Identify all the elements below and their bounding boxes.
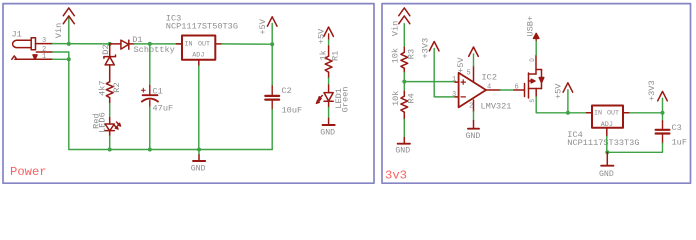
- svg-text:+3V3: +3V3: [647, 80, 657, 101]
- svg-text:ADJ: ADJ: [192, 52, 204, 60]
- supply +3V3 arrow (out): [658, 91, 668, 100]
- diode D2 zener: [104, 44, 116, 73]
- frame left panel: [3, 4, 374, 184]
- wire IC3 OUT to +5V node: [222, 43, 272, 45]
- svg-text:USB+: USB+: [525, 16, 535, 37]
- regulator IC3 box: [177, 36, 222, 67]
- ground GND op-amp: [468, 121, 479, 129]
- wire IC4 ADJ to rail: [606, 137, 608, 153]
- svg-text:J1: J1: [12, 30, 22, 40]
- svg-text:GND: GND: [191, 165, 206, 174]
- capacitor C1 polarized: [141, 86, 158, 108]
- LED1 emission arrows: [316, 96, 322, 104]
- node ADJ rail junction: [605, 150, 609, 154]
- svg-text:10uF: 10uF: [282, 106, 303, 116]
- wire +3V3 stem: [433, 49, 435, 82]
- wire J1 pin2 to down bend: [53, 52, 69, 59]
- capacitor C2: [265, 86, 279, 110]
- op-amp IC2: [455, 66, 500, 112]
- wire IC4 OUT to +3V3 node: [630, 112, 663, 114]
- node Vin junction: [67, 42, 71, 46]
- wire junction to IC4 IN: [568, 112, 587, 114]
- svg-text:+5V: +5V: [456, 57, 466, 73]
- LED LED1 green: [324, 85, 333, 108]
- wire Vin to R3: [403, 24, 405, 53]
- wire C1 to rail: [149, 107, 151, 150]
- svg-text:D2: D2: [101, 44, 111, 54]
- wire branch to inverting input: [434, 82, 455, 97]
- svg-text:D: D: [529, 58, 536, 62]
- wire +5V to op-amp: [473, 54, 475, 66]
- svg-text:R1: R1: [330, 51, 340, 61]
- wire source to +5V junction: [536, 97, 568, 113]
- svg-text:ADJ: ADJ: [601, 121, 613, 129]
- svg-text:1uF: 1uF: [672, 138, 687, 148]
- supply +5V arrow (IC4): [563, 83, 573, 92]
- svg-text:C3: C3: [672, 123, 682, 133]
- svg-text:3: 3: [452, 91, 456, 99]
- wire to C3: [662, 113, 664, 122]
- svg-text:GND: GND: [320, 128, 335, 137]
- svg-text:R4: R4: [407, 93, 417, 103]
- svg-text:+5V: +5V: [258, 18, 268, 34]
- svg-text:1: 1: [42, 53, 46, 61]
- svg-text:4k7: 4k7: [98, 80, 108, 95]
- wire J1 pin3 to Vin junction: [53, 43, 110, 45]
- svg-text:+5V: +5V: [553, 83, 563, 99]
- wire R1 to LED1: [328, 78, 330, 85]
- svg-text:1k: 1k: [318, 50, 328, 60]
- supply +5V arrow (R1): [324, 27, 334, 36]
- supply VIN arrow: [63, 8, 74, 24]
- ground GND left: [193, 150, 205, 162]
- resistor R3: [401, 52, 408, 72]
- supply +5V arrow (C2): [267, 17, 277, 26]
- svg-text:3v3: 3v3: [385, 168, 407, 182]
- svg-text:+5V: +5V: [316, 28, 326, 44]
- svg-text:1: 1: [452, 76, 456, 84]
- wire R3 to junction: [403, 73, 405, 82]
- svg-text:C1: C1: [153, 87, 163, 97]
- wire C2 top: [271, 44, 273, 86]
- node divider junction: [402, 80, 406, 84]
- ground GND R4: [398, 138, 410, 144]
- resistor R1: [325, 46, 332, 78]
- transistor Q1 P-MOSFET: [514, 55, 544, 98]
- wire C3 to rail: [607, 143, 662, 152]
- svg-text:OUT: OUT: [198, 41, 210, 49]
- svg-text:GND: GND: [599, 170, 614, 179]
- svg-text:OUT: OUT: [607, 109, 619, 117]
- svg-text:Schottky: Schottky: [134, 45, 175, 55]
- wire D1 to IC3: [134, 43, 182, 45]
- svg-text:2: 2: [469, 103, 473, 111]
- wire divider to op-amp input: [404, 81, 455, 83]
- connector J1 barrel jack: [12, 38, 53, 60]
- supply +3V3 arrow (divider): [429, 42, 439, 51]
- svg-text:Power: Power: [10, 165, 47, 179]
- svg-text:5: 5: [467, 70, 471, 78]
- wire LED1 to GND: [328, 108, 330, 119]
- wire bottom ground rail: [69, 149, 272, 151]
- ground GND IC4: [601, 152, 613, 165]
- supply USB+ arrow: [533, 33, 539, 41]
- wire +5V to R1: [328, 34, 330, 46]
- node LED6 rail junction: [108, 148, 112, 152]
- node ADJ rail junction: [197, 148, 201, 152]
- node +5V junction: [566, 111, 570, 115]
- resistor R2: [106, 73, 113, 103]
- node D2 top junction: [108, 42, 112, 46]
- supply +5V arrow (op-amp): [469, 47, 479, 56]
- svg-text:Vin: Vin: [54, 23, 64, 38]
- wire op-amp output to gate: [500, 89, 514, 91]
- svg-text:LMV321: LMV321: [481, 102, 512, 112]
- svg-text:C2: C2: [282, 86, 292, 96]
- svg-text:10k: 10k: [391, 91, 401, 106]
- frame right panel: [382, 4, 691, 184]
- wire +5V stem to junction: [567, 90, 569, 113]
- node pin1 junction: [67, 57, 71, 61]
- wire op-amp pin2 to GND: [473, 112, 475, 121]
- diode D1 Schottky: [110, 40, 135, 49]
- wire C2 to rail: [271, 110, 273, 150]
- wire IC3 ADJ to rail: [198, 66, 200, 150]
- svg-text:LED6: LED6: [98, 112, 108, 133]
- svg-text:10k: 10k: [391, 48, 401, 63]
- wire +5V stem: [271, 24, 273, 45]
- svg-text:GND: GND: [466, 132, 481, 141]
- wire USB+ to drain: [535, 42, 537, 56]
- supply VIN arrow right: [399, 8, 410, 24]
- svg-text:R3: R3: [407, 49, 417, 59]
- wire C1 top: [149, 44, 151, 86]
- svg-text:4: 4: [487, 84, 491, 92]
- wire R2 to LED6: [109, 104, 111, 118]
- svg-text:R2: R2: [112, 82, 122, 92]
- svg-text:IN: IN: [185, 41, 193, 49]
- svg-text:+3V3: +3V3: [420, 38, 430, 59]
- svg-text:Vin: Vin: [391, 21, 401, 36]
- ground GND LED1: [323, 118, 335, 125]
- svg-text:3: 3: [42, 37, 46, 45]
- wire pin1 junction down to ground rail: [53, 59, 69, 149]
- resistor R4: [401, 82, 408, 120]
- LED LED6 red: [105, 118, 114, 137]
- node +3V3 junction: [661, 111, 665, 115]
- svg-text:IN: IN: [594, 109, 602, 117]
- wire R4 to GND: [403, 120, 405, 138]
- svg-text:NCP1117ST33T3G: NCP1117ST33T3G: [567, 138, 639, 148]
- wire +3V3 stem: [662, 98, 664, 112]
- svg-text:NCP1117ST50T3G: NCP1117ST50T3G: [166, 21, 238, 31]
- svg-text:Green: Green: [341, 87, 351, 113]
- LED6 emission arrows: [114, 122, 121, 129]
- node C1 junction: [148, 42, 152, 46]
- node +5V junction: [270, 42, 274, 46]
- node C1 rail junction: [148, 148, 152, 152]
- svg-text:S: S: [529, 99, 536, 103]
- svg-text:GND: GND: [395, 146, 410, 155]
- svg-text:47uF: 47uF: [153, 104, 174, 114]
- wire LED6 to rail: [109, 136, 111, 150]
- regulator IC4 box: [587, 106, 630, 137]
- svg-text:IC2: IC2: [482, 73, 497, 83]
- wire Vin stem: [68, 17, 70, 44]
- capacitor C3: [656, 121, 670, 143]
